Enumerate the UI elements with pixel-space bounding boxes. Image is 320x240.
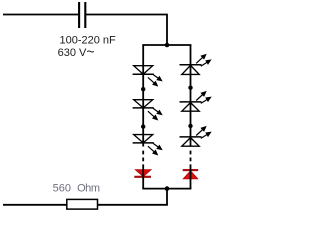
wire: bottom return lead right of resistor: [98, 204, 168, 206]
LED D1 (left string, pointing down): [133, 66, 154, 75]
node: right string junction dot 2: [188, 124, 192, 128]
LED D2 emission arrows: [148, 108, 162, 119]
LED D5 emission arrows: [196, 55, 210, 66]
wire: left string dashed continuation: [142, 151, 144, 168]
svg-text:560 Ohm: 560 Ohm: [53, 182, 100, 194]
wire: right string vertical: [190, 45, 192, 147]
node: right string junction dot 1: [188, 86, 192, 90]
wire: right string dashed continuation: [190, 151, 192, 168]
node: left string junction dot 1: [141, 87, 145, 91]
wire: top mains lead right of capacitor to corner: [86, 15, 167, 46]
LED D3 (left string, pointing down): [133, 135, 154, 143]
LED D5 (right string, pointing up): [180, 65, 202, 75]
resistor R1 body: [67, 199, 98, 209]
wire: riser from bottom bar down to return lead: [166, 189, 168, 205]
LED D3 emission arrows: [148, 143, 162, 154]
node: top junction dot: [165, 43, 170, 48]
wire: right string below red LED: [190, 168, 192, 189]
LED D6 emission arrows: [196, 92, 210, 103]
wire: top mains lead left of capacitor: [3, 14, 78, 16]
node: left string junction dot 2: [141, 124, 145, 128]
LED D8 (right string, red, pointing up): [183, 170, 199, 179]
LED D6 (right string, pointing up): [180, 102, 202, 111]
LED D7 emission arrows: [196, 127, 210, 139]
wire: bottom return lead left of resistor: [3, 204, 67, 206]
LED D2 (left string, pointing down): [133, 100, 154, 108]
wire: bottom bar joining both strings: [143, 188, 190, 190]
node: bottom junction dot: [165, 186, 170, 191]
wire: left string vertical: [142, 45, 144, 147]
wire: left string below red LED: [142, 168, 144, 189]
LED D1 emission arrows: [148, 75, 162, 86]
LED D4 (left string, red, pointing down): [134, 170, 151, 177]
capacitor C1 plates: [79, 2, 85, 28]
LED D7 (right string, pointing up): [180, 137, 202, 146]
wire: top tee bar to both strings: [143, 44, 190, 46]
